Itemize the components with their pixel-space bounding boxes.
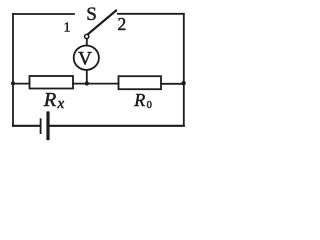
svg-text:0: 0: [147, 100, 152, 111]
svg-text:R: R: [133, 90, 145, 110]
svg-text:R: R: [43, 89, 57, 111]
svg-text:V: V: [78, 48, 92, 69]
svg-text:2: 2: [118, 14, 127, 34]
svg-text:1: 1: [64, 20, 71, 35]
svg-text:S: S: [86, 4, 97, 25]
svg-text:x: x: [57, 96, 65, 112]
